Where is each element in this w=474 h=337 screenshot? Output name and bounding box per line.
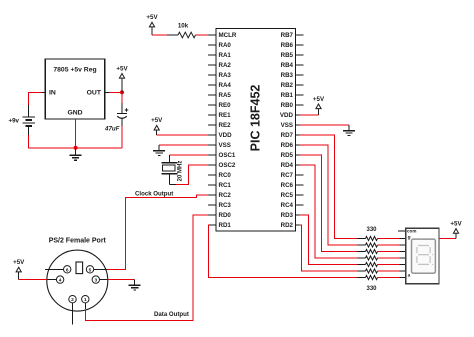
pin stub left RC2: [208, 194, 216, 196]
pin stub J1 pin 5: [94, 268, 108, 270]
resistor R1 10k body: [178, 32, 196, 38]
pin stub left VSS: [208, 144, 216, 146]
wire RD0 data output to PS/2 pin 1: [85, 215, 208, 321]
wire crystal X1 bottom lead: [168, 174, 170, 184]
pin stub display segment d: [400, 257, 406, 259]
resistor R6 330 segment c: [366, 262, 378, 266]
svg-text:RD6: RD6: [281, 142, 294, 149]
pin stub left RA5: [208, 94, 216, 96]
svg-text:g: g: [408, 235, 411, 240]
pin stub right RB1: [296, 94, 304, 96]
pin stub left RE1: [208, 114, 216, 116]
wire ground rail bottom: [29, 135, 122, 148]
svg-text:com: com: [407, 229, 416, 234]
svg-text:RC7: RC7: [281, 172, 294, 179]
pin stub right RB2: [296, 84, 304, 86]
display DS1 digit face: [412, 239, 436, 273]
pin stub right RB6: [296, 44, 304, 46]
pin stub display segment a: [400, 277, 406, 279]
wire IN pin stub: [42, 91, 45, 93]
wire RD1 under chip to segment a resistor: [208, 225, 358, 278]
svg-text:RB5: RB5: [281, 52, 294, 59]
svg-text:20 MHz: 20 MHz: [178, 161, 184, 182]
wire OUT pin stub: [105, 91, 109, 93]
svg-text:RD2: RD2: [281, 222, 294, 229]
svg-text:RC2: RC2: [219, 192, 232, 199]
wire J1 pin 3 to ground: [108, 279, 135, 281]
pin stub left RC1: [208, 184, 216, 186]
wire resistor R1 to MCLR: [196, 34, 209, 36]
pin stub display segment g: [400, 238, 406, 240]
wire battery + to 7805 IN: [29, 92, 42, 105]
wire resistor to display segment e pin: [378, 251, 400, 253]
svg-text:RC4: RC4: [281, 202, 294, 209]
pin stub right RB7: [296, 34, 304, 36]
wire crystal bottom lead right: [169, 184, 176, 186]
svg-text:RA4: RA4: [219, 82, 232, 89]
wire resistor to display segment d pin: [378, 257, 400, 259]
svg-text:RD5: RD5: [281, 152, 294, 159]
display DS1 segments (faint 8): [417, 246, 433, 265]
ground G2 at VSS left: [153, 145, 165, 155]
pin stub right VDD: [296, 114, 300, 116]
wire +5V stem to MCLR net: [151, 27, 153, 35]
wire resistor to display segment b pin: [378, 270, 400, 272]
wire resistor to display segment g pin: [378, 238, 400, 240]
wire +5V stem to VDD right: [318, 109, 320, 115]
wire resistor to display segment f pin: [378, 244, 400, 246]
pin stub right RC4: [296, 204, 304, 206]
pin stub right RB0: [296, 104, 304, 106]
svg-text:VSS: VSS: [281, 122, 293, 129]
pin stub left RA3: [208, 74, 216, 76]
pin stub left OSC1: [208, 154, 216, 156]
pin stub display segment f: [400, 244, 406, 246]
pin stub left RC3: [208, 204, 216, 206]
svg-text:+5V: +5V: [450, 220, 462, 227]
svg-text:330: 330: [366, 286, 377, 292]
wire segment e resistor left lead: [358, 251, 366, 253]
svg-text:4: 4: [59, 278, 62, 284]
connector J1 pin 3: [92, 276, 99, 283]
svg-text:RD4: RD4: [281, 162, 294, 169]
connector J1 pin 6: [63, 266, 70, 273]
pin stub left RA0: [208, 44, 216, 46]
wire PIC VDD right to +5V: [300, 114, 319, 116]
wire +5V stem at 7805 output: [121, 78, 123, 92]
pin stub left RA4: [208, 84, 216, 86]
svg-text:Data Output: Data Output: [154, 311, 189, 318]
svg-text:RC5: RC5: [281, 192, 294, 199]
svg-text:2: 2: [71, 297, 74, 303]
svg-text:RE2: RE2: [219, 122, 232, 129]
wire 7805 GND pin down to rail: [75, 119, 77, 148]
pin stub J1 pin 1: [84, 303, 86, 309]
svg-text:RD7: RD7: [281, 132, 294, 139]
crystal X1 20 MHz: [162, 163, 178, 174]
pin stub left RA2: [208, 64, 216, 66]
svg-text:RC3: RC3: [219, 202, 232, 209]
wire segment d resistor left lead: [358, 257, 366, 259]
wire segment f resistor left lead: [358, 244, 366, 246]
wire RD3 to segment c resistor: [300, 215, 358, 265]
wire segment g resistor left lead: [358, 238, 366, 240]
svg-text:RC6: RC6: [281, 182, 294, 189]
svg-text:RB1: RB1: [281, 92, 294, 99]
svg-text:3: 3: [94, 278, 97, 284]
wire capacitor C1 top lead: [121, 103, 123, 113]
pin stub left OSC2: [208, 164, 216, 166]
wire segment c resistor left lead: [358, 264, 366, 266]
svg-text:RA0: RA0: [219, 42, 232, 49]
pin stub right RD6: [296, 144, 300, 146]
svg-text:RA5: RA5: [219, 92, 232, 99]
svg-text:OUT: OUT: [87, 90, 102, 97]
ground G4 at PS/2 pin 3: [129, 280, 141, 290]
wire resistor to display segment a pin: [378, 277, 400, 279]
svg-text:RD3: RD3: [281, 212, 294, 219]
wire RD2 to segment b resistor: [300, 225, 358, 271]
svg-text:VDD: VDD: [219, 132, 233, 139]
wire crystal X1 top lead: [168, 155, 170, 162]
pin stub display segment c: [400, 264, 406, 266]
resistor R8 330 segment a: [366, 275, 378, 279]
svg-text:IN: IN: [49, 90, 56, 97]
pin stub left RC0: [208, 174, 216, 176]
pin stub left RE0: [208, 104, 216, 106]
wire RD7 to segment g resistor: [300, 135, 358, 239]
svg-text:RB2: RB2: [281, 82, 294, 89]
svg-text:5: 5: [89, 267, 92, 273]
power +5V symbol (7805 output): [116, 65, 128, 78]
svg-text:RA2: RA2: [219, 62, 232, 69]
IC U1 PIC 18F452 microcontroller body: [216, 29, 296, 232]
svg-text:PIC 18F452: PIC 18F452: [249, 85, 263, 152]
node ground-rail junction: [74, 146, 78, 150]
svg-text:10k: 10k: [178, 23, 189, 30]
wire PIC VSS right to ground: [300, 124, 350, 126]
resistor R4 330 segment e: [366, 249, 378, 253]
svg-text:+5V: +5V: [151, 117, 163, 124]
wire resistor to display segment c pin: [378, 264, 400, 266]
wire +5V stem at PS/2: [18, 272, 20, 280]
pin stub right RC7: [296, 174, 304, 176]
wire display common to +5V: [439, 238, 456, 240]
wire RD4 to segment d resistor: [300, 165, 358, 258]
pin stub right RD2: [296, 224, 300, 226]
pin stub left MCLR: [208, 34, 216, 36]
svg-text:RD0: RD0: [219, 212, 232, 219]
wire segment b resistor left lead: [358, 270, 366, 272]
svg-text:+5V: +5V: [146, 14, 158, 21]
connector J1 pin 5: [86, 266, 93, 273]
wire +5V to J1 pin 4: [19, 279, 47, 281]
svg-text:PS/2 Female Port: PS/2 Female Port: [49, 238, 107, 245]
pin stub right RC6: [296, 184, 304, 186]
svg-text:RC0: RC0: [219, 172, 232, 179]
svg-text:6: 6: [66, 267, 69, 273]
wire +5V to resistor R1: [152, 34, 167, 36]
pin stub J1 pin 4: [47, 279, 56, 281]
pin stub left RD1: [208, 224, 216, 226]
wire segment a resistor left lead: [358, 277, 366, 279]
pin stub right RB5: [296, 54, 304, 56]
svg-text:1: 1: [84, 297, 87, 303]
svg-text:GND: GND: [67, 110, 82, 117]
pin stub display segment e: [400, 251, 406, 253]
wire PIC VSS left to ground: [159, 144, 208, 146]
pin stub J1 pin 6: [45, 268, 63, 270]
resistor R2 330 segment g: [366, 236, 378, 240]
connector J1 pin 4: [56, 276, 63, 283]
svg-text:RB6: RB6: [281, 42, 294, 49]
wire battery top lead: [28, 105, 30, 117]
ground G3 at VSS right: [343, 125, 355, 135]
svg-text:RA3: RA3: [219, 72, 232, 79]
pin stub J1 pin 2 (n/c): [72, 303, 74, 325]
battery B1 +9v: [23, 117, 36, 126]
svg-text:OSC2: OSC2: [219, 162, 236, 169]
wire +5V node down to capacitor C1: [121, 92, 123, 103]
svg-text:a: a: [408, 274, 411, 279]
wire +5V to PIC VDD left pin: [157, 134, 208, 136]
pin stub right VSS: [296, 124, 300, 126]
pin stub display segment b: [400, 270, 406, 272]
pin stub right RD4: [296, 164, 300, 166]
display DS1 7-segment body: [406, 228, 439, 283]
svg-text:RB0: RB0: [281, 102, 294, 109]
svg-text:7805 +5v Reg: 7805 +5v Reg: [53, 67, 96, 74]
wire capacitor C1 to ground rail: [121, 126, 123, 148]
wire RD5 to segment e resistor: [300, 155, 358, 252]
svg-text:VSS: VSS: [219, 142, 231, 149]
wire RD6 to segment f resistor: [300, 145, 358, 245]
resistor R7 330 segment b: [366, 269, 378, 273]
connector J1 pin 2: [69, 296, 76, 303]
wire OUT to +5V node: [109, 91, 122, 93]
pin stub right RD5: [296, 154, 300, 156]
wire capacitor C1 bottom lead: [121, 118, 123, 126]
svg-text:RE0: RE0: [219, 102, 232, 109]
wire +5V stem to VDD left: [156, 130, 158, 135]
wire resistor R1 left lead: [167, 34, 178, 36]
svg-text:+5V: +5V: [116, 65, 128, 72]
pin stub right RD7: [296, 134, 300, 136]
svg-text:MCLR: MCLR: [219, 32, 237, 39]
node +5V output junction: [120, 90, 124, 94]
pin stub left RA1: [208, 54, 216, 56]
power +5V symbol (VDD right): [313, 96, 325, 109]
pin stub right RB3: [296, 74, 304, 76]
svg-text:+9v: +9v: [9, 117, 20, 124]
wire crystal to OSC2: [176, 165, 208, 185]
power +5V symbol (PS/2 pin 4): [13, 259, 25, 272]
connector J1 pin 1: [82, 296, 89, 303]
ground G1 under 7805: [70, 148, 82, 160]
svg-text:RB4: RB4: [281, 62, 294, 69]
pin stub left VDD: [208, 134, 216, 136]
svg-text:47uF: 47uF: [104, 126, 120, 133]
svg-text:+5V: +5V: [313, 96, 325, 103]
regulator U2 7805 body: [45, 59, 104, 119]
svg-text:RB7: RB7: [281, 32, 294, 39]
power +5V symbol (VDD left): [151, 117, 163, 130]
svg-text:Clock Output: Clock Output: [135, 191, 173, 198]
wire RC2 clock output to PS/2 pin 5: [106, 195, 208, 269]
svg-text:RC1: RC1: [219, 182, 232, 189]
svg-text:+5V: +5V: [13, 259, 25, 266]
pin stub right RB4: [296, 64, 304, 66]
connector J1 key slot: [76, 262, 83, 274]
svg-text:RB3: RB3: [281, 72, 294, 79]
wire OSC1 to crystal: [169, 154, 208, 156]
resistor R5 330 segment d: [366, 256, 378, 260]
svg-text:RE1: RE1: [219, 112, 232, 119]
wire +5V stem at display: [455, 233, 457, 238]
pin stub right RD3: [296, 214, 300, 216]
pin stub display com: [398, 230, 406, 232]
pin stub left RE2: [208, 124, 216, 126]
svg-text:RD1: RD1: [219, 222, 232, 229]
svg-text:VDD: VDD: [280, 112, 294, 119]
pin stub J1 pin 3: [100, 279, 108, 281]
svg-text:OSC1: OSC1: [219, 152, 236, 159]
svg-text:RA1: RA1: [219, 52, 232, 59]
power +5V symbol (MCLR pull-up): [146, 14, 158, 27]
svg-text:330: 330: [366, 227, 377, 233]
wire battery bottom lead: [28, 126, 30, 135]
pin stub right RC5: [296, 194, 304, 196]
resistor R3 330 segment f: [366, 243, 378, 247]
capacitor C1 47uF polarized: [117, 108, 128, 118]
power +5V symbol (display common): [450, 220, 462, 233]
pin stub left RD0: [208, 214, 216, 216]
connector J1 PS/2 female shell: [47, 250, 108, 311]
